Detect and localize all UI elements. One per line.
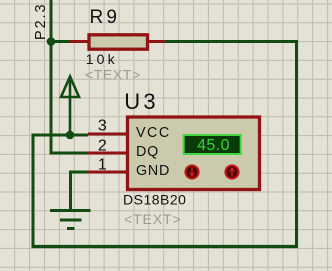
part name DS18B20 <box>123 192 186 208</box>
svg-text:VCC: VCC <box>136 125 171 141</box>
wire: bottom horizontal VCC net <box>32 245 299 248</box>
svg-text:2: 2 <box>98 138 107 155</box>
resistor R9 <box>70 35 167 49</box>
net label P2.3 <box>33 3 49 40</box>
wire: right vertical VCC net <box>295 40 298 248</box>
svg-text:DS18B20: DS18B20 <box>123 192 186 208</box>
pin name DQ <box>136 144 159 160</box>
wire: DQ horizontal to pin 2 <box>50 152 89 155</box>
svg-text:45.0: 45.0 <box>197 137 230 154</box>
pin 1 stub <box>88 171 126 174</box>
power terminal arrow (VCC) <box>61 77 79 136</box>
wire: R9 right lead to top-right corner <box>166 40 297 43</box>
pin name GND <box>136 163 170 179</box>
pin 3 stub <box>88 133 126 136</box>
component U3 body (DS18B20) <box>128 117 260 190</box>
wire: junction to R9 left lead <box>51 40 70 43</box>
label R9 <box>90 7 121 28</box>
property placeholder TEXT (R9) <box>85 67 141 83</box>
svg-text:<TEXT>: <TEXT> <box>124 211 182 227</box>
svg-text:10k: 10k <box>86 51 118 67</box>
wire: left vertical VCC net <box>32 135 35 248</box>
LCD readout display <box>184 135 241 154</box>
svg-text:3: 3 <box>98 118 107 135</box>
svg-text:DQ: DQ <box>136 144 159 160</box>
svg-text:GND: GND <box>136 163 170 179</box>
junction at VCC / power terminal <box>66 131 75 140</box>
pin number 1 <box>98 157 107 174</box>
button up (increase) <box>225 165 238 178</box>
svg-text:<TEXT>: <TEXT> <box>85 67 141 83</box>
value 10k <box>86 51 118 67</box>
svg-text:1: 1 <box>98 157 107 174</box>
pin number 2 <box>98 138 107 155</box>
junction at P2.3 / R9 branch <box>47 37 56 46</box>
svg-text:R9: R9 <box>90 7 121 28</box>
svg-text:P2.3: P2.3 <box>33 3 49 40</box>
label U3 <box>124 89 159 114</box>
button down (decrease) <box>185 165 198 178</box>
wire: net P2.3 vertical from top edge down to DQ row <box>50 0 53 153</box>
pin 2 stub <box>88 152 126 155</box>
ground <box>50 211 91 229</box>
wire: VCC horizontal into pin 3 <box>32 134 89 137</box>
pin number 3 <box>98 118 107 135</box>
svg-text:U3: U3 <box>124 89 159 114</box>
pin name VCC <box>136 125 171 141</box>
property placeholder TEXT (U3) <box>124 211 182 227</box>
wire: GND pin 1 to ground <box>71 172 89 210</box>
